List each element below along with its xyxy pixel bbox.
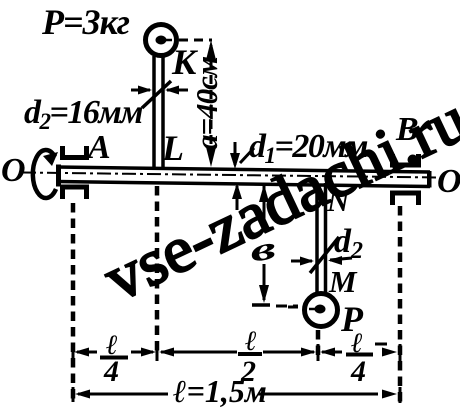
weight rod (double line) — [315, 183, 319, 293]
extension tick at N on dim line — [317, 344, 320, 361]
d2 callout arrows on crank rod — [131, 89, 150, 92]
right bearing lower staple — [393, 193, 419, 205]
weight circle P — [305, 294, 338, 327]
extension line at B (dashed) — [398, 206, 403, 406]
dashed connector circle to a-dim line — [179, 39, 212, 42]
rotation arrow (C arc) at left end — [33, 150, 56, 198]
svg-text:L: L — [161, 128, 184, 168]
a=40cm dimension line (dashed vertical) — [210, 45, 213, 165]
dash at bottom of b dimension — [252, 303, 270, 307]
shaft left end cap — [56, 165, 61, 187]
extension line at L (dashed) — [155, 186, 160, 356]
d2 leader line (weight rod) — [310, 237, 339, 273]
d2 leader line — [142, 81, 171, 108]
svg-text:d2: d2 — [334, 223, 363, 264]
svg-text:N: N — [326, 183, 351, 218]
svg-text:а=40см: а=40см — [189, 56, 224, 150]
weight circle center dot — [315, 305, 326, 314]
watermark vse-zadachi.ru — [94, 83, 460, 316]
dashed centerline left of weight circle — [288, 306, 303, 309]
shaft body top edge — [57, 167, 430, 172]
shaft right end cap — [427, 171, 432, 188]
svg-text:ℓ=1,5м: ℓ=1,5м — [173, 373, 267, 409]
overall dimension line l=1.5m — [78, 393, 168, 396]
dimension line l/4 left: arrows — [77, 351, 97, 354]
d1 callout arrows on shaft — [234, 142, 237, 165]
svg-text:d1=20мм: d1=20мм — [249, 128, 368, 168]
crank handle center dot — [156, 36, 167, 45]
crank handle circle K — [146, 25, 177, 56]
dimension line l/2: arrows and line — [161, 351, 237, 354]
left bearing lower staple — [63, 187, 87, 199]
svg-text:4: 4 — [350, 355, 366, 388]
extension line at A (dashed) — [71, 203, 76, 404]
svg-text:Р=3кг: Р=3кг — [41, 2, 130, 42]
dimension line l/4 right: arrows — [322, 351, 342, 354]
extension tick at B on overall dim line — [399, 387, 402, 403]
axis line O-O (dash-dot) — [22, 173, 440, 178]
svg-text:О: О — [1, 152, 26, 189]
svg-text:М: М — [328, 264, 358, 299]
left bearing upper staple — [63, 146, 87, 158]
b dimension line (vertical, shaft to weight level) — [263, 186, 266, 220]
extension tick at B on dim line — [399, 344, 402, 361]
svg-text:А: А — [86, 129, 111, 166]
svg-text:О: О — [437, 163, 460, 200]
extension tick at L on dim line — [156, 344, 159, 361]
extension tick at A on overall dim line — [72, 387, 75, 402]
svg-text:d2=16мм: d2=16мм — [24, 94, 143, 134]
svg-text:В: В — [395, 111, 419, 148]
svg-text:4: 4 — [103, 355, 119, 388]
d1 leader line — [240, 148, 254, 163]
shaft body bottom edge — [57, 182, 430, 187]
crank rod (double line) — [152, 56, 156, 168]
extension tick at A on dim line — [72, 344, 75, 361]
d2 callout arrows on weight rod — [291, 260, 312, 263]
extension line at N (dashed) — [316, 330, 321, 357]
right bearing upper staple — [393, 154, 419, 165]
